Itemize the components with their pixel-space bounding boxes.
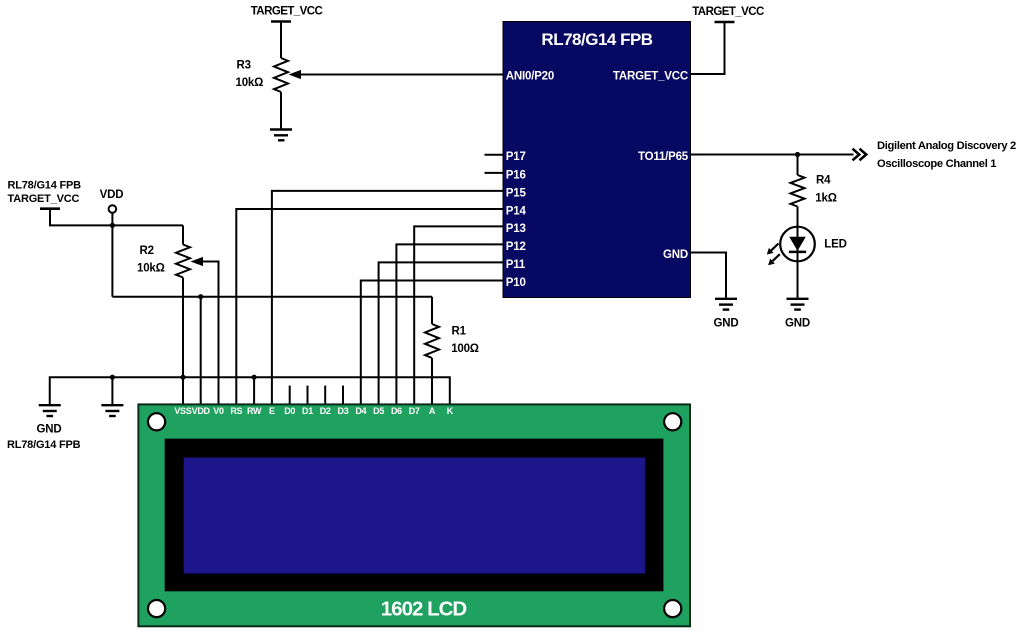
svg-text:10kΩ: 10kΩ bbox=[137, 262, 165, 274]
stub D3 bbox=[342, 386, 344, 405]
svg-text:D1: D1 bbox=[302, 406, 313, 416]
svg-text:RW: RW bbox=[247, 406, 262, 416]
wire junction to R4 bbox=[797, 155, 799, 176]
svg-text:P10: P10 bbox=[506, 277, 526, 289]
svg-text:VSS: VSS bbox=[174, 406, 191, 416]
svg-text:D7: D7 bbox=[409, 406, 420, 416]
LED cathode bar bbox=[789, 251, 806, 254]
svg-text:R3: R3 bbox=[237, 60, 251, 72]
svg-text:P17: P17 bbox=[506, 151, 526, 163]
wire ANI0/P20 to R3 wiper bbox=[298, 74, 503, 76]
potentiometer R3 bbox=[274, 58, 288, 92]
wire VDD circle to rail bbox=[111, 213, 113, 226]
svg-text:TARGET_VCC: TARGET_VCC bbox=[8, 193, 80, 205]
wire R3 to ground bbox=[280, 92, 282, 129]
mounting hole bottom-right bbox=[664, 600, 681, 617]
potentiometer R2 bbox=[176, 245, 190, 278]
svg-text:D2: D2 bbox=[320, 406, 331, 416]
ground rail bbox=[50, 377, 450, 405]
svg-text:P16: P16 bbox=[506, 169, 526, 181]
svg-text:VDD: VDD bbox=[100, 189, 124, 201]
wire TO11/P65 to oscilloscope bbox=[691, 154, 854, 156]
svg-text:GND: GND bbox=[663, 249, 688, 261]
junction VDD bbox=[110, 223, 115, 228]
wire to second ground bbox=[111, 377, 113, 404]
svg-text:R4: R4 bbox=[816, 174, 831, 186]
mounting hole top-right bbox=[664, 413, 681, 430]
svg-text:100Ω: 100Ω bbox=[451, 343, 479, 355]
LED D1 circle bbox=[780, 227, 815, 262]
svg-text:RS: RS bbox=[230, 406, 242, 416]
wire VCC bar to R3 bbox=[280, 22, 282, 59]
svg-text:P12: P12 bbox=[506, 241, 526, 253]
svg-text:D0: D0 bbox=[284, 406, 295, 416]
VCC bar symbol (R3 top) bbox=[271, 20, 291, 23]
wire P14 to RS bbox=[236, 209, 503, 405]
junction rail/second ground bbox=[110, 375, 115, 380]
svg-text:ANI0/P20: ANI0/P20 bbox=[506, 71, 554, 83]
junction rail/VSS bbox=[180, 375, 185, 380]
svg-text:P13: P13 bbox=[506, 223, 526, 235]
svg-text:TARGET_VCC: TARGET_VCC bbox=[613, 71, 688, 83]
svg-text:V0: V0 bbox=[213, 406, 224, 416]
svg-text:D4: D4 bbox=[355, 406, 366, 416]
mounting hole bottom-left bbox=[148, 600, 165, 617]
svg-text:RL78/G14 FPB: RL78/G14 FPB bbox=[7, 439, 81, 451]
svg-text:GND: GND bbox=[785, 318, 810, 330]
svg-text:RL78/G14 FPB: RL78/G14 FPB bbox=[8, 180, 82, 192]
wire R4 to LED and LED to ground bbox=[797, 207, 799, 299]
junction VDD rail to LCD VDD bbox=[198, 294, 203, 299]
wire P13 to D7 bbox=[414, 226, 503, 405]
wire MCU GND pin to ground bbox=[691, 253, 727, 299]
svg-text:TARGET_VCC: TARGET_VCC bbox=[692, 6, 764, 18]
wire RW to rail bbox=[253, 377, 255, 405]
LCD screen bbox=[184, 458, 645, 574]
svg-text:GND: GND bbox=[714, 318, 739, 330]
svg-text:P15: P15 bbox=[506, 187, 527, 199]
svg-text:A: A bbox=[429, 406, 436, 416]
wire P10 to D4 bbox=[361, 281, 503, 406]
mounting hole top-left bbox=[148, 413, 165, 430]
LED light arrow 1 bbox=[767, 244, 779, 255]
resistor R1 bbox=[425, 324, 439, 358]
stub D0 bbox=[289, 386, 291, 405]
svg-text:P11: P11 bbox=[506, 259, 526, 271]
svg-text:P14: P14 bbox=[506, 205, 527, 217]
wire R2 bottom to LCD VSS bbox=[182, 278, 184, 406]
junction TO11/R4 bbox=[795, 152, 800, 157]
ground (MCU) bbox=[715, 299, 737, 310]
stub P17 bbox=[485, 154, 504, 156]
LCD module board bbox=[138, 404, 690, 626]
svg-text:GND: GND bbox=[37, 423, 62, 435]
svg-text:Oscilloscope Channel 1: Oscilloscope Channel 1 bbox=[877, 158, 996, 170]
ground (second) bbox=[101, 405, 123, 416]
svg-text:E: E bbox=[269, 406, 275, 416]
MCU U1 RL78/G14 FPB block bbox=[503, 22, 691, 298]
svg-text:D3: D3 bbox=[338, 406, 349, 416]
wire LCD VDD pin bbox=[200, 297, 202, 405]
R2 wiper arrowhead bbox=[191, 257, 204, 266]
chevron arrow to oscilloscope bbox=[853, 149, 867, 161]
ground (LED) bbox=[787, 299, 809, 310]
wire VDD down bbox=[111, 225, 113, 296]
LED light arrow 2 bbox=[768, 254, 780, 265]
svg-text:RL78/G14 FPB: RL78/G14 FPB bbox=[541, 30, 652, 49]
VCC bar symbol (MCU) bbox=[715, 21, 735, 24]
svg-text:10kΩ: 10kΩ bbox=[236, 77, 264, 89]
svg-text:VDD: VDD bbox=[192, 406, 211, 416]
wire P12 to D6 bbox=[396, 244, 503, 405]
wire R1 to LCD A bbox=[431, 358, 433, 405]
wire VCC to TARGET_VCC pin bbox=[691, 22, 725, 74]
LCD bezel bbox=[165, 439, 664, 592]
LCD pin labels bbox=[174, 406, 453, 416]
stub P16 bbox=[485, 172, 504, 174]
ground (R3) bbox=[270, 130, 292, 141]
wire P11 to D5 bbox=[379, 262, 503, 405]
LED anode triangle bbox=[789, 237, 806, 251]
svg-text:D5: D5 bbox=[373, 406, 384, 416]
resistor R4 bbox=[791, 175, 805, 207]
stub D1 bbox=[307, 386, 309, 405]
VCC bar symbol (left) bbox=[40, 207, 60, 210]
wire left VCC to VDD rail bbox=[50, 209, 183, 226]
wire R2 wiper to V0 bbox=[200, 262, 219, 406]
resistor R1 top wire bbox=[431, 297, 433, 324]
svg-text:R1: R1 bbox=[452, 325, 467, 337]
svg-text:K: K bbox=[447, 406, 454, 416]
junction rail/RW bbox=[252, 375, 257, 380]
ground (left GND) bbox=[39, 405, 61, 416]
svg-text:TO11/P65: TO11/P65 bbox=[638, 151, 689, 163]
svg-text:D6: D6 bbox=[391, 406, 402, 416]
svg-text:LED: LED bbox=[824, 239, 846, 251]
VDD terminal circle bbox=[109, 205, 117, 213]
svg-text:R2: R2 bbox=[140, 245, 154, 257]
stub D2 bbox=[324, 386, 326, 405]
VDD horizontal rail bbox=[112, 296, 432, 298]
svg-text:TARGET_VCC: TARGET_VCC bbox=[251, 6, 323, 18]
wire P15 to E bbox=[272, 191, 503, 405]
svg-text:Digilent Analog Discovery 2: Digilent Analog Discovery 2 bbox=[877, 140, 1016, 152]
wiper arrowhead R3 bbox=[289, 70, 302, 79]
wire to R2 top bbox=[182, 225, 184, 244]
svg-text:1602 LCD: 1602 LCD bbox=[381, 598, 467, 621]
svg-text:1kΩ: 1kΩ bbox=[815, 192, 836, 204]
